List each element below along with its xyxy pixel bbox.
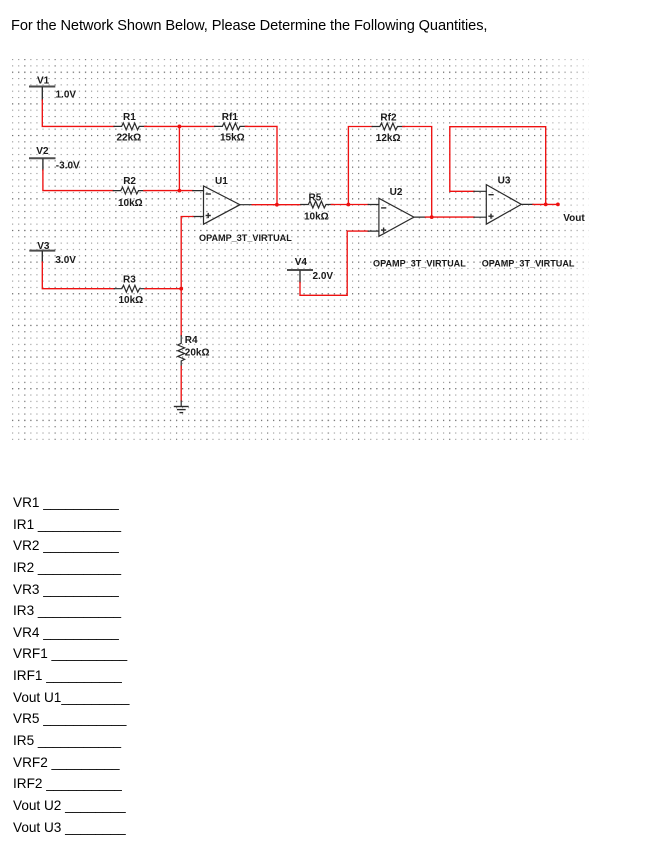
svg-text:20kΩ: 20kΩ: [185, 347, 210, 358]
wire U1 + input: [181, 217, 193, 289]
wire U2 output to U3 + input: [425, 216, 474, 218]
source V1: [30, 76, 76, 101]
svg-text:2.0V: 2.0V: [313, 271, 334, 282]
ground: [175, 401, 189, 413]
svg-text:OPAMP_3T_VIRTUAL: OPAMP_3T_VIRTUAL: [199, 233, 292, 243]
wire node E to U2 inverting input: [348, 204, 368, 206]
op-amp U3: [474, 175, 575, 268]
wire R4 to ground: [180, 366, 182, 401]
svg-text:15kΩ: 15kΩ: [220, 133, 245, 144]
svg-text:R5: R5: [309, 192, 322, 203]
wire R3 to node D: [145, 288, 181, 290]
node G junction: [544, 203, 548, 207]
wire node D down to R4: [180, 289, 182, 336]
svg-text:10kΩ: 10kΩ: [304, 212, 329, 223]
resistor R2 10kΩ: [113, 176, 145, 209]
source V2: [30, 146, 80, 172]
svg-text:3.0V: 3.0V: [55, 255, 76, 266]
svg-text:Vout: Vout: [563, 213, 585, 224]
wire V1 to R1: [42, 100, 114, 126]
node C junction (U1 out / Rf1): [275, 203, 279, 207]
op-amp U2: [368, 187, 466, 269]
svg-text:OPAMP_3T_VIRTUAL: OPAMP_3T_VIRTUAL: [373, 259, 466, 269]
svg-text:V2: V2: [36, 146, 49, 157]
wire node A to Rf1: [179, 125, 214, 127]
svg-text:V1: V1: [37, 76, 50, 87]
source V3: [30, 241, 76, 266]
node F junction: [430, 215, 434, 219]
wire node A down to node B: [178, 126, 180, 190]
node D junction: [179, 287, 183, 291]
op-amp U1: [193, 176, 292, 243]
svg-text:10kΩ: 10kΩ: [118, 198, 143, 209]
wire Rf1 to feedback corner down to U1 output: [245, 126, 277, 204]
wire R5 to node E and up to Rf2: [331, 127, 372, 205]
resistor Rf2 12kΩ: [372, 113, 404, 144]
wire U1 output to R5: [252, 204, 301, 206]
wire R1 to node A: [145, 125, 180, 127]
resistor R5 10kΩ: [301, 192, 333, 222]
svg-text:R2: R2: [123, 176, 136, 187]
resistor R1 22kΩ: [114, 112, 146, 143]
wire U3 output to Vout: [533, 203, 558, 205]
svg-text:12kΩ: 12kΩ: [376, 133, 401, 144]
U3 feedback loop wire: [450, 127, 546, 205]
wire V3 to R3: [42, 262, 114, 289]
svg-text:1.0V: 1.0V: [56, 90, 77, 101]
svg-text:U3: U3: [498, 175, 511, 186]
svg-text:22kΩ: 22kΩ: [117, 133, 142, 144]
svg-text:R3: R3: [123, 274, 136, 285]
wire V4 to U2 non-inverting input: [300, 231, 368, 295]
wire R2 through node B to U1 inverting input: [144, 190, 193, 192]
svg-text:U2: U2: [390, 187, 403, 198]
node A junction: [178, 125, 182, 129]
svg-text:Rf2: Rf2: [380, 113, 397, 124]
node B junction: [178, 189, 182, 193]
svg-text:R1: R1: [123, 112, 136, 123]
wire V2 to R2: [43, 170, 113, 191]
svg-text:10kΩ: 10kΩ: [119, 295, 144, 306]
resistor Rf1 15kΩ: [215, 112, 247, 143]
svg-text:V4: V4: [295, 257, 308, 268]
wire Rf2 down to U2 output node F: [403, 127, 432, 218]
svg-text:R4: R4: [185, 335, 198, 346]
svg-text:V3: V3: [37, 241, 50, 252]
svg-text:Rf1: Rf1: [222, 112, 239, 123]
svg-text:-3.0V: -3.0V: [56, 161, 80, 172]
node E junction: [347, 203, 351, 207]
source V4: [288, 257, 333, 282]
right edge fade: [540, 58, 589, 441]
dotted grid background: [12, 58, 589, 441]
svg-text:OPAMP_3T_VIRTUAL: OPAMP_3T_VIRTUAL: [482, 259, 575, 269]
resistor R3 10kΩ: [114, 274, 146, 306]
svg-text:U1: U1: [215, 176, 228, 187]
resistor R4 20kΩ (vertical): [178, 335, 210, 368]
Vout terminal dot: [556, 203, 560, 207]
